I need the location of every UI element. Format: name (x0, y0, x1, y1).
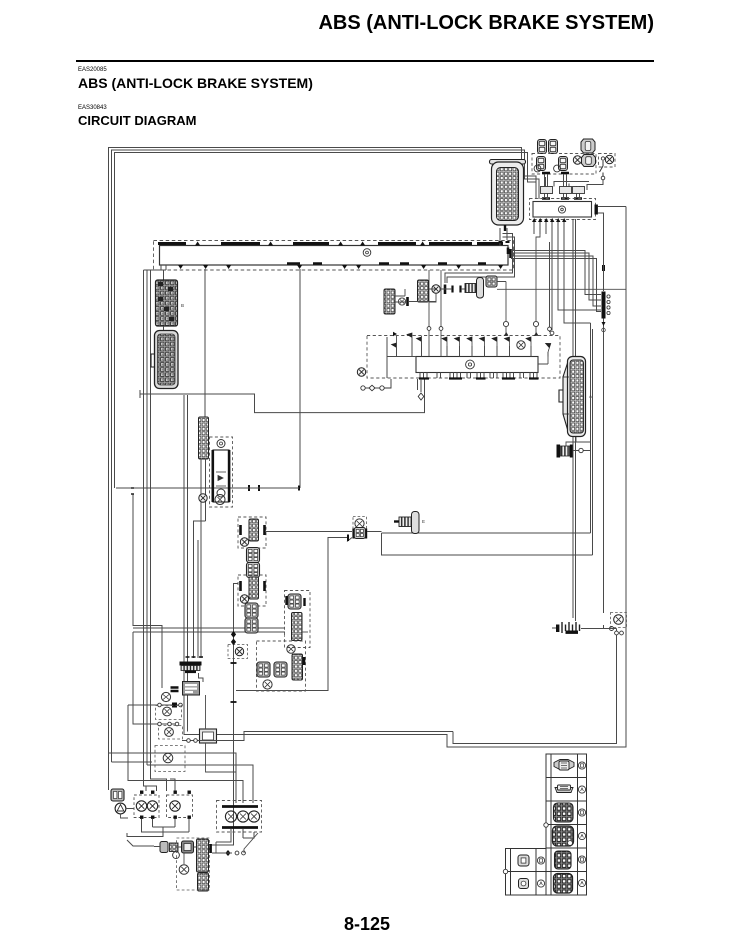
front sensor pins (241, 525, 265, 535)
wire: row y724 to relay (133, 632, 177, 724)
main fuse dashed box (611, 613, 627, 628)
harness bottom tape segments (287, 262, 486, 265)
wire: relay stub down right jog (558, 240, 601, 310)
circled motor symbol on top row (517, 341, 525, 349)
connector B1 dark cells (158, 282, 174, 321)
connector: main fuse holder top (581, 139, 595, 153)
turn cluster inline terminals (225, 850, 230, 856)
wire: y488 through diode block to right (231, 487, 300, 489)
ECU left ledge (387, 337, 416, 378)
diode block body (213, 450, 229, 502)
wire: connector D bottom loop (566, 437, 591, 446)
legend row3 circled letter (578, 809, 585, 816)
wire: junction drop to ground run (604, 625, 617, 637)
fuse F3 in box (537, 157, 546, 171)
wire: long run y289 to right (497, 288, 626, 290)
connector B2 (left lower multi-pin) (155, 331, 179, 389)
diode block assembly dashed outline (210, 437, 233, 507)
ECU below-dash drops (418, 379, 422, 392)
lower cluster connector b (274, 662, 287, 677)
solenoid flag row (397, 342, 549, 357)
rear sensor connector b (245, 618, 258, 633)
wire: left margin drop 2 (146, 270, 148, 765)
connector C bottom pins (499, 241, 510, 243)
motor wire terminal circle (579, 448, 583, 452)
ABS motor unit (557, 445, 573, 458)
top mid: terminal circle (398, 298, 405, 305)
legend row1 icon: winged connector (554, 760, 574, 771)
circled A terminal (115, 803, 126, 814)
fuse F4 in box (559, 157, 568, 171)
wire: bus to fuse bundle 3 (511, 256, 601, 306)
tail light cluster dashed box (217, 801, 262, 833)
wire: bus drop to strip connector (204, 269, 206, 417)
wire: bus to fuse bundle 1 (511, 251, 601, 295)
harness right end pins (508, 248, 511, 259)
ignition switch blade (600, 161, 604, 176)
flag: solenoid 7 (480, 337, 485, 346)
inline connector pair with pins (354, 528, 366, 539)
lower cluster connector a (257, 662, 270, 677)
wire: horizontal link y488 (116, 487, 300, 489)
diode block side bars (212, 450, 215, 502)
big connector C pin field (497, 168, 519, 221)
flag: solenoid 5 (455, 337, 460, 346)
wire: left frame drop to tail feed y753 (109, 753, 237, 803)
wire: rear sensor tail (234, 584, 239, 629)
tail bulb 3 (248, 811, 259, 822)
wire harness main bus body (160, 246, 509, 266)
top mid: sensor circle (432, 285, 440, 293)
legend sub-table frame (506, 849, 547, 896)
legend row5 icon: grid connector (555, 851, 572, 869)
ECU left side terminal circle (357, 368, 365, 376)
wire: cluster links (395, 289, 465, 302)
pin: inline pair on y488 (249, 485, 259, 491)
relay block body (200, 729, 217, 743)
brake switch dashed box (353, 517, 367, 531)
svg-text:E: E (422, 519, 425, 524)
wire: link bar over relay (546, 177, 590, 187)
thin joint strip connector (199, 417, 209, 459)
wire: corner x381 (382, 329, 593, 555)
connector B2 latch tab (151, 354, 155, 367)
ECU top entry ticks (393, 332, 538, 336)
strip side pin (209, 844, 212, 853)
front sensor connector b (247, 563, 260, 578)
wire: bottom ground run outer (184, 207, 626, 748)
wire: relay to joint connector (603, 214, 605, 292)
wire: relay block drop (206, 695, 237, 772)
relay coil circle 1 (163, 707, 172, 716)
flag: solenoid 8 (492, 337, 497, 346)
ECU circled label (466, 360, 475, 369)
footer page number (0, 914, 734, 935)
mini cluster dashed box (228, 645, 248, 659)
diode block top terminal (217, 440, 225, 448)
dashed box turn cluster (177, 838, 210, 890)
row y724 terminals (158, 722, 162, 726)
joint comb (ground joint) (180, 662, 202, 674)
harness circled label (363, 249, 371, 257)
lower cluster side pin (303, 657, 306, 665)
legend row2 circled letter (578, 786, 585, 793)
speed sensor symbol (T) (465, 278, 484, 299)
wire: relay stub to right vertical pair (564, 240, 591, 533)
bulb 1 (136, 801, 146, 811)
mini cluster diamonds (231, 631, 236, 645)
inline connector bodies on drops (541, 187, 553, 194)
flag: solenoid 2 (407, 333, 412, 342)
flag: solenoid 4 (442, 337, 447, 346)
legend row6 circled letter (578, 879, 585, 886)
legend row3 icon: grid connector (554, 803, 574, 822)
bulb feed pins top (140, 791, 191, 794)
wire: brake light feed down left (133, 494, 162, 688)
switch loop pin (347, 535, 349, 542)
harness top tape segments (158, 242, 503, 245)
wire: bottom ground run inner (453, 637, 617, 744)
mini cluster bottom pin (231, 662, 237, 664)
strip lower part (198, 873, 209, 891)
ECU assembly dashed outline (367, 336, 560, 379)
wire bundle: outer harness loop wire 1 (109, 148, 537, 791)
flag: solenoid 3 (417, 337, 422, 346)
flag: solenoid 10 (526, 337, 531, 346)
rear sensor circle (240, 595, 248, 603)
big connector C cap (490, 160, 526, 165)
ECU bottom pin black ticks (419, 377, 539, 379)
diagnostic cluster dashed box (285, 591, 311, 648)
wire: cluster to option circles (497, 234, 540, 336)
mini cluster terminal circle (235, 647, 243, 655)
option connector circle 2 (533, 321, 538, 326)
wire: harness bundle into relay left (533, 181, 536, 183)
legend sub row2 icon (519, 879, 529, 889)
switch blade wire (347, 538, 352, 542)
wire: inner ground line start with terminals (182, 732, 453, 741)
tail bulb 2 (237, 811, 248, 822)
relay lower circle (163, 753, 173, 763)
wire: tail cluster drop (216, 829, 254, 842)
diode symbols inside (216, 472, 226, 486)
svg-text:A: A (589, 394, 592, 399)
legend junction dots (544, 823, 548, 827)
option connector circle 1 (503, 321, 508, 326)
top mid: joint strip 2 (418, 280, 429, 302)
wire: row y705 to relay (128, 705, 243, 803)
legend sub row2 circled letter (537, 880, 544, 887)
hydraulic unit ECU box (416, 357, 538, 373)
diagnostic connector 2x3 (288, 594, 301, 609)
diagnostic joint strip (292, 613, 303, 641)
legend table frame (546, 754, 587, 895)
front speed sensor (T symbol) (394, 512, 419, 534)
wire: front sensor output (266, 531, 352, 533)
sidestand switch circle (161, 692, 170, 701)
front sensor connector a (247, 548, 260, 563)
wire: x233 drop (210, 628, 234, 845)
legend row6 icon: grid connector (554, 874, 573, 894)
relay coil circle 2 (165, 728, 174, 737)
top mid cluster: joint strip (384, 289, 395, 314)
bulb 2 (147, 801, 157, 811)
wire: diag cluster stubs (302, 631, 308, 633)
terminal circles below fuse box (534, 165, 541, 172)
relay circled label (558, 206, 565, 213)
tail light bus bars (222, 805, 258, 808)
main fuse circle (614, 615, 624, 625)
comb top pin ticks (186, 656, 204, 658)
flag: solenoid 6 (467, 337, 472, 346)
pin: inline tick y488 (298, 486, 300, 491)
relay dashed outline (530, 199, 596, 220)
wire: connector C bottom exits (445, 228, 515, 283)
wire: switch to loop corner (236, 538, 349, 691)
relay cluster dashed box 1 (156, 706, 182, 720)
pin: link wire left end (131, 488, 134, 494)
legend row4 circled letter (578, 832, 585, 839)
fuse box dashed outline (532, 154, 596, 175)
ECU left link: circle-diamond-circle (361, 379, 391, 391)
wire: relay to joint drop 603 (598, 213, 604, 215)
bulb 3 (170, 801, 180, 811)
wire: left margin drop 1 (144, 270, 157, 791)
lower cluster circle bottom (263, 680, 272, 689)
rear sensor pins (241, 581, 265, 591)
diagnostic pins (285, 596, 287, 605)
junction dot (610, 627, 614, 631)
wire: bus drop to link (299, 269, 301, 488)
tail bulb 1 (225, 811, 236, 822)
relay right pin (595, 205, 598, 215)
OFF/ON unit pins left (171, 688, 179, 692)
OFF/ON control unit (183, 682, 200, 696)
wire: motor to right (573, 450, 591, 452)
wire bundle: harness loop wire 3 (115, 153, 534, 489)
top mid: pin bar 2 (444, 285, 447, 295)
wire: circled A link (121, 809, 135, 819)
wire: left margin drop 3 (151, 270, 176, 791)
relay cluster dashed box 2 (159, 726, 183, 740)
relay bottom pins (532, 218, 566, 222)
small connector 2x2 top mid (486, 276, 497, 287)
relay cluster dashed box 3 (155, 746, 185, 772)
harness bottom connector ticks (178, 265, 503, 269)
relay circle small (179, 865, 189, 875)
wire: cluster bits (154, 833, 258, 864)
legend row2 icon: small connector (555, 785, 573, 793)
big connector C bottom stub (504, 225, 506, 231)
row y705 terminals (158, 703, 162, 707)
relay bottom stubs (534, 222, 564, 240)
ECU bottom pin stubs (420, 373, 537, 379)
turn signal connector group (160, 841, 194, 853)
rear sensor strip (249, 577, 259, 599)
connector B1 (left multi-pin) (156, 280, 178, 326)
wire: ECU to connector D (538, 356, 548, 364)
wire: bus to fuse bundle 4 (511, 259, 601, 312)
legend sub row1 icon (518, 855, 529, 866)
rear wheel sensor cluster dashed box (238, 575, 266, 606)
flag: solenoid 11 tilted (543, 342, 551, 352)
ignition switch dashed box (599, 154, 616, 168)
lower cluster strip (292, 654, 303, 680)
wire: switch down to relay (587, 180, 603, 190)
wire: joint connector down to battery junction (603, 319, 605, 614)
small 2x2 block (111, 789, 124, 801)
harness top connector ticks (195, 242, 425, 246)
front sensor strip (249, 519, 259, 541)
flag: solenoid 9 (505, 337, 510, 346)
fuse holder drop wires (545, 174, 580, 198)
legend row4 icon: grid connector large (553, 826, 574, 846)
turn signal joint strip vertical (197, 839, 209, 872)
front brake switch circle (355, 519, 364, 528)
harness left exit wires (144, 265, 167, 280)
flag: solenoid 1 (392, 343, 397, 352)
wire: relay stub pair down to ECU flags (551, 240, 553, 330)
main fuse body in box (582, 155, 596, 167)
wire: B2 down feeds (164, 326, 188, 732)
joint connector strip (602, 292, 606, 319)
angle terminals pair (173, 852, 180, 859)
meter bulb box 2 dashed (167, 795, 193, 818)
wire bundle: harness loop wire 2 (112, 150, 540, 762)
joint connector top pin (602, 265, 605, 271)
wire: bulb returns (127, 819, 189, 846)
ignition switch circle symbol (605, 155, 613, 163)
wire: comb to OFF/ON unit (199, 673, 204, 682)
wire harness dashed outline (154, 241, 514, 271)
battery plates (552, 622, 580, 634)
legend sub row1 circled letter (537, 857, 544, 864)
top mid: pin bar (406, 297, 409, 306)
meter bulb box 1 dashed (134, 795, 159, 818)
svg-text:B: B (181, 303, 184, 308)
wire: bus to fuse bundle 2 (511, 253, 601, 300)
front sensor circle (240, 538, 248, 546)
legend row5 circled letter (578, 856, 585, 863)
fuse F2 (above box) (549, 140, 558, 154)
fuse holder drops: pins (542, 173, 582, 199)
lower cluster dashed box (257, 641, 306, 691)
top mid: inline pin pair (453, 286, 461, 293)
page header (318, 12, 654, 35)
rear sensor connector a (245, 603, 258, 618)
bulb feed pins bottom (140, 816, 191, 819)
fuse F1 (above box) (538, 140, 547, 154)
wire: bus drops to ECU (429, 270, 441, 356)
ignition switch terminal (601, 157, 604, 160)
diode block bottom circle (215, 495, 225, 505)
junction terminals (615, 631, 619, 635)
drop diamond terminal (418, 393, 424, 400)
relay unit box (533, 202, 592, 218)
wire: battery to junction (581, 628, 611, 630)
wire: corner link y394 (140, 379, 425, 413)
front wheel sensor cluster dashed box (238, 517, 266, 548)
wire: strip feeds down to comb (194, 459, 206, 658)
wire: sensor line continues right (367, 532, 591, 534)
wire: relay to right drop 626 (598, 206, 626, 208)
wire: bulb feed y765 (147, 765, 253, 803)
wire: second drop y762 (112, 761, 153, 763)
big connector D body (559, 357, 586, 437)
diode block bottom terminal (217, 489, 225, 497)
wire: tail run y628 (133, 627, 285, 629)
terminal circle in fuse box (573, 156, 581, 164)
joint connector bottom pin (602, 322, 606, 326)
component circle left of diode block (199, 494, 207, 502)
legend row1 circled letter (578, 762, 585, 769)
lower cluster circle top (287, 645, 295, 653)
wire: ECU left riser (397, 336, 422, 352)
wire: tail run y632 (133, 631, 285, 633)
big connector C body (492, 162, 524, 225)
